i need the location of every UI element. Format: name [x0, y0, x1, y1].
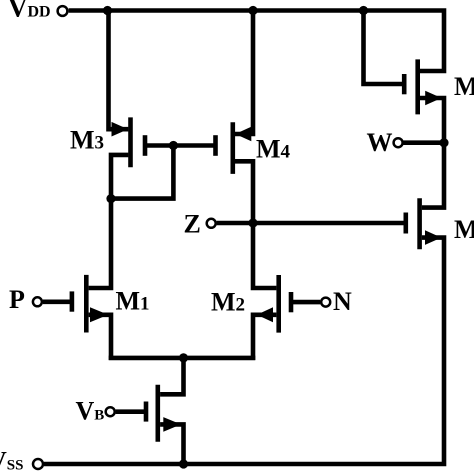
terminal VSS [33, 459, 43, 469]
node D: gate bus junction [169, 141, 178, 150]
transistor M1 (NMOS, gate left, leads right) [72, 275, 108, 333]
node B: junction VDD rail to M4 source [248, 6, 257, 15]
transistor M5 (gate left, leads right, top right) [404, 59, 441, 114]
terminal P [33, 297, 42, 306]
transistor M2 (NMOS, gate right, leads left) [257, 275, 291, 333]
wire VDD rail to M5 gate [364, 11, 405, 85]
terminal Z [207, 219, 216, 228]
transistor MB tail current source (NMOS, gate left, leads right) [146, 385, 181, 442]
svg-text:VDD: VDD [8, 0, 51, 23]
svg-text:M5: M5 [454, 72, 474, 101]
node I: VSS rail junction [179, 459, 188, 468]
node G: tail junction [179, 353, 188, 362]
terminal N [321, 298, 330, 307]
svg-text:W: W [367, 128, 393, 157]
wire P to M1 gate [43, 299, 72, 304]
wire tail bus [109, 356, 256, 361]
svg-text:P: P [9, 285, 25, 314]
node A: junction VDD rail to M3 source [103, 6, 112, 15]
node H: W junction [439, 138, 448, 147]
terminal W [394, 138, 403, 147]
terminal VB [106, 407, 115, 416]
wire M3 drain down to M1 drain [89, 155, 129, 288]
node F: Z junction [248, 218, 257, 227]
wire M4 drain down to M2 drain [235, 161, 276, 288]
wire diode connection gate bus to M3 drain [111, 146, 173, 199]
wire M2 gate to N [291, 300, 320, 305]
svg-text:Z: Z [184, 209, 201, 238]
wire MB source to VSS rail [160, 424, 183, 464]
svg-text:N: N [333, 287, 352, 316]
wire M1 source down to tail [89, 315, 111, 360]
transistor M4 (PMOS, gate left, leads right) [216, 122, 252, 174]
node C: junction VDD rail to M5 gate [359, 6, 368, 15]
wire M2 source down to tail [253, 315, 276, 360]
wire VSS bottom rail with right riser to M6 source [44, 238, 444, 464]
wire W to right column [404, 140, 445, 145]
wire M3/M4 gate bus [145, 143, 216, 148]
wire VDD to M4 source lead [235, 11, 253, 135]
node E: M3 drain junction [106, 194, 115, 203]
wire tail junction to MB drain [160, 358, 183, 394]
svg-text:M6: M6 [454, 215, 474, 244]
transistor M6 (gate left, leads right, bottom right) [406, 198, 442, 249]
wire VDD to M3 source lead [109, 11, 129, 130]
terminal VDD [58, 6, 68, 16]
transistor M3 (PMOS, gate right, leads left) [112, 117, 146, 167]
wire node Z to M6 gate [217, 221, 406, 226]
wire VB to MB gate [116, 409, 146, 414]
wire VDD top rail with right-side drop to M5 drain [69, 11, 444, 72]
wire M5 source through node W to M6 drain [420, 98, 444, 208]
